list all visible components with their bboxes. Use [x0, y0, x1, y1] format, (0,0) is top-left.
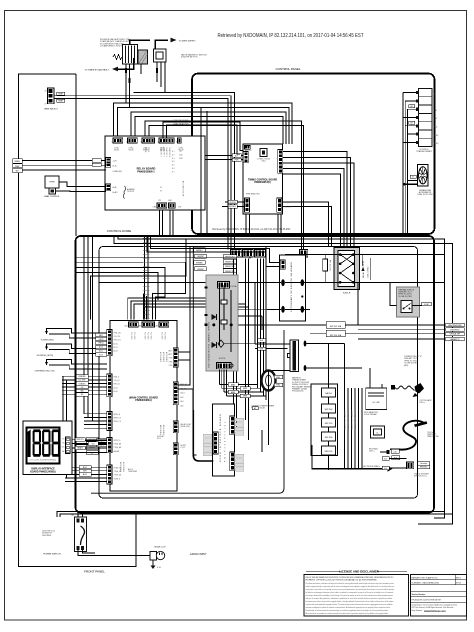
door left tags [203, 434, 212, 456]
wire hv bundle 4 [354, 388, 356, 468]
svg-text:HI AL2: HI AL2 [113, 191, 118, 194]
CN6 wire tag 4 [86, 451, 98, 455]
svg-text:5: 5 [176, 142, 177, 144]
wire tag gray2 [57, 99, 65, 102]
P-row wire tag 2 [223, 260, 237, 264]
svg-text:SPRE_CD: SPRE_CD [114, 418, 122, 420]
svg-text:J3.3: J3.3 [172, 158, 175, 160]
svg-text:HI AL: HI AL [113, 186, 117, 189]
wire transformer pin 2 [405, 100, 416, 102]
feeder wire F2 [76, 262, 185, 319]
wire right margin 2 [358, 328, 445, 330]
hv panel bottom wire d [225, 370, 227, 396]
left wire tag col2 1 [194, 248, 206, 252]
wire transformer pin 6 [407, 133, 415, 135]
svg-text:DISC ±: DISC ± [369, 451, 375, 453]
touch temp cable [399, 421, 425, 450]
wire switch stub left 2 [60, 514, 83, 517]
svg-text:GRN2: GRN2 [243, 388, 247, 390]
door ribbon cable [192, 247, 194, 410]
wire timing br 2 [282, 207, 332, 247]
svg-text:+5B_CD: +5B_CD [114, 380, 121, 382]
hv capacitor C1 [366, 384, 387, 410]
wire long vertical x88 [87, 236, 89, 417]
relay J5 pin labels [113, 186, 118, 194]
svg-text:DUAL FLUX 230V: DUAL FLUX 230V [417, 193, 433, 196]
svg-text:J3.4: J3.4 [172, 161, 175, 163]
relay bottom conn labels [153, 200, 182, 209]
svg-text:WHT/BLK: WHT/BLK [229, 206, 236, 208]
cn9 loop 3 arrowhead [45, 362, 48, 365]
wire hv bundle 2 [347, 388, 349, 468]
wire CN10 pin 3 [62, 383, 107, 385]
cutting arc component [413, 383, 425, 397]
svg-text:2T: 2T [45, 104, 47, 106]
svg-text:CLK: CLK [92, 443, 95, 445]
current transformer CT1 [262, 371, 276, 391]
wire armature drop [140, 64, 142, 74]
ribbon hatch line 2 [147, 236, 149, 320]
wire relay bottom drop 3 [169, 211, 171, 237]
svg-text:1 IS AMPLIFIED 1 W STYLE: 1 IS AMPLIFIED 1 W STYLE [100, 44, 125, 47]
svg-text:SPRE_CD: SPRE_CD [114, 421, 122, 423]
main board right connector CN12 [173, 421, 178, 433]
relay K301 body [334, 248, 360, 290]
hv fanout wire 4 [226, 395, 266, 397]
svg-text:P1.2 GRN: P1.2 GRN [133, 332, 135, 340]
hv bundle rotated labels [344, 410, 358, 430]
wire ovp right b [345, 333, 358, 335]
ribbon bundle v1 [143, 294, 145, 320]
ground symbol [151, 560, 162, 569]
wire display to main 1 [72, 438, 107, 440]
svg-text:SECONDARY INTERLOCK SW BOARD: SECONDARY INTERLOCK SW BOARD [290, 262, 293, 312]
svg-text:SPRE_IO: SPRE_IO [114, 440, 122, 442]
svg-text:12VAC RELAY PWR: 12VAC RELAY PWR [173, 123, 189, 126]
fuse F201 on wire [323, 255, 332, 283]
tco out tag [422, 302, 432, 306]
control transformer label [416, 149, 432, 153]
timing bl tag 2 [228, 205, 237, 209]
svg-text:WHT: WHT [83, 471, 86, 473]
wire timing bl 1 [225, 201, 245, 203]
wire hv diamond right [224, 343, 255, 345]
fuse mark on switch drop [156, 68, 158, 73]
bus wire W112 [131, 112, 286, 144]
svg-text:4 PIN MOLEX: 4 PIN MOLEX [450, 329, 459, 331]
svg-text:TIME_OUT: TIME_OUT [284, 206, 292, 208]
cn9 loop 1 arrowhead [45, 331, 48, 334]
cutting arc pin [391, 385, 395, 390]
power switch note [42, 531, 55, 537]
svg-text:REV. 4: REV. 4 [456, 577, 461, 579]
bus wire W116 [135, 117, 283, 145]
svg-text:VPB_CDL: VPB_CDL [114, 340, 121, 342]
front panel column right edge [75, 74, 77, 236]
wire panel drop 3 [245, 259, 247, 421]
svg-text:Retrieved by NXDOMAIN, IP 82.1: Retrieved by NXDOMAIN, IP 82.132.214.101… [213, 227, 291, 231]
wire CN7 pin 5 [84, 427, 107, 429]
svg-text:DISC ±: DISC ± [420, 402, 426, 404]
svg-text:4.1: 4.1 [412, 176, 414, 178]
svg-text:PWR B: PWR B [147, 147, 149, 152]
rail bottom stub2 [418, 514, 453, 524]
display J2 pin labels [61, 439, 65, 453]
wire transformer pin 3 [407, 108, 415, 110]
wire timing bottom stub 1 [245, 214, 247, 236]
wire display to main 2 [72, 443, 107, 445]
wire relay J4 out 2 [22, 164, 106, 166]
bus wire W103 [114, 103, 293, 144]
track tag right 2 [418, 465, 430, 468]
bus wire W121 [145, 121, 302, 250]
svg-text:BOARD PN#8312480(U): BOARD PN#8312480(U) [30, 470, 56, 473]
hv small comp 2 [221, 320, 227, 324]
main control board outline [110, 321, 177, 492]
valve magnetic switch label [181, 54, 207, 59]
relay J4 wire tag 1 [13, 159, 23, 163]
CN7 pin names [114, 413, 122, 423]
wire relay J4 out 1 [22, 160, 106, 162]
svg-text:AC IN 12VAC 2.5A: AC IN 12VAC 2.5A [182, 180, 185, 196]
svg-text:HLK1: HLK1 [434, 135, 440, 137]
oven cavity box B2 [76, 236, 435, 513]
junction connector P3 [255, 250, 266, 258]
svg-text:POWER (RED): POWER (RED) [41, 339, 54, 341]
wire bottom bus2 [261, 430, 263, 452]
wire long vertical x84 [83, 236, 85, 414]
relay board right pin text col1 [172, 151, 175, 173]
wire timing br 1 [282, 202, 329, 247]
wire switch stub left 1 [57, 512, 78, 518]
door board right connector A [230, 416, 235, 435]
ribbon hatch ticks [143, 238, 150, 318]
wire timing bottom stub 4 [280, 214, 282, 237]
svg-text:GROUNDS: GROUNDS [42, 535, 52, 537]
P-row wire tag 1 [223, 255, 237, 259]
sfr top feed [328, 344, 330, 389]
svg-text:12VAC RELAY PWR: 12VAC RELAY PWR [173, 119, 189, 122]
svg-text:PN#8304380A): PN#8304380A) [135, 399, 152, 402]
wire display to main 4 [72, 452, 107, 454]
node dots top [129, 39, 131, 41]
ribbon bundle v2 [146, 296, 148, 320]
machine compartment box B3 [99, 247, 418, 499]
svg-text:TIME_IN: TIME_IN [284, 202, 291, 204]
wire CN6 pin 3 [72, 447, 107, 449]
svg-text:BLK: BLK [260, 340, 263, 342]
filet arc wire [380, 451, 387, 453]
relay board CN1 pin text [114, 147, 120, 152]
alarms output label [127, 188, 135, 193]
rail HV upper [285, 254, 445, 256]
display digit 8a [33, 430, 41, 457]
door small tag [252, 407, 258, 411]
svg-text:HLK2: HLK2 [434, 143, 440, 145]
svg-text:CL: CL [376, 433, 378, 435]
wire T1 top right [306, 343, 344, 345]
wire T1 bottom right [306, 367, 362, 369]
current transformer label [251, 405, 275, 410]
CN5 wire tag 2 [79, 469, 91, 473]
svg-text:Service Number: Service Number [412, 594, 426, 596]
feeder wire F4 [76, 273, 158, 301]
wire heat control 3 [56, 190, 106, 193]
svg-text:PIN5: PIN5 [169, 365, 173, 367]
hv panel left pin 2 [205, 314, 208, 316]
wire CN5 pin 5 [65, 481, 107, 483]
wire relay1 long [76, 440, 107, 442]
surge resistor SFR4 [322, 432, 336, 441]
hv panel bottom wire c [223, 370, 225, 393]
wire panel-to-board elbow 4 [144, 307, 249, 320]
magnetron transformer T1 [288, 340, 299, 372]
svg-text:MAGNETRON FILAMENT: MAGNETRON FILAMENT [347, 410, 350, 430]
wire tco in [390, 282, 397, 305]
wire long vertical x201 [200, 107, 202, 236]
svg-text:J3.6: J3.6 [172, 168, 175, 170]
svg-text:M05.1: M05.1 [181, 393, 186, 395]
CN12 labels [181, 423, 192, 428]
relay board CN4 pin text [160, 147, 166, 152]
wire tag gray1 [57, 92, 65, 95]
cutting arc label [420, 399, 433, 404]
CN10 wire tag 6 [76, 393, 88, 397]
relay board top connector CN2 [128, 138, 138, 143]
wire hv bundle 5 [358, 388, 360, 468]
wire solenoid top to supply [130, 40, 151, 45]
CN5 wire tag 3 [79, 473, 91, 477]
main board right connector RC0 [173, 348, 178, 367]
wire interlock feed 2 [147, 236, 280, 267]
hv fanout tag 1 [228, 383, 238, 387]
svg-text:MODE (CM): MODE (CM) [181, 426, 191, 428]
svg-text:PWR: PWR [49, 182, 55, 184]
display bezel [26, 428, 59, 464]
wire CN7 pin 3 [84, 420, 107, 422]
wire transformer vert 3 [406, 109, 408, 233]
svg-text:1: 1 [111, 142, 112, 144]
wire select wire 2 [55, 99, 229, 250]
svg-text:4.10: 4.10 [394, 451, 397, 453]
valve magnetic switch S1 [154, 49, 167, 62]
wire panel drop 5 [257, 259, 259, 389]
door right tags B [236, 454, 244, 471]
wire fan feed 2 [405, 183, 418, 185]
wire transformer pin 7 [403, 141, 416, 143]
svg-text:H.V. CAP: H.V. CAP [372, 401, 380, 404]
wire track trigger in 1 [382, 458, 407, 460]
cn9 near tag 6 [96, 353, 107, 357]
main board top connector CN1 [129, 322, 139, 327]
svg-text:CLUTCH: CLUTCH [229, 202, 235, 204]
rail HV lower left [99, 281, 281, 283]
wire right margin 1 [358, 324, 445, 326]
main board left connector CN5 [107, 465, 112, 484]
CN10 pin names [114, 377, 121, 393]
svg-text:(A11): (A11) [404, 364, 409, 367]
wire panel drop 1 [233, 259, 235, 418]
relay board CN2 pin text [129, 147, 135, 152]
relay board bottom connector CN6 [157, 203, 167, 208]
right margin tag 3 [446, 332, 465, 336]
door board left connector [213, 432, 218, 454]
svg-text:P1.2 GRN: P1.2 GRN [164, 332, 166, 340]
svg-text:SWITCH (N.O.): SWITCH (N.O.) [414, 476, 427, 478]
svg-text:(ON/OFF SET PT): (ON/OFF SET PT) [181, 57, 198, 59]
display digit 1 [27, 430, 30, 457]
wire relay top right 2 [167, 125, 241, 154]
CT1 tag 2 [274, 383, 283, 387]
wire T1 bottom left [271, 370, 290, 372]
svg-text:DISPLAY INTERFACE: DISPLAY INTERFACE [31, 467, 55, 470]
hv diode D1 [212, 314, 217, 320]
relay board left connector J5 [106, 184, 111, 191]
CN11 wire labels [181, 383, 187, 408]
svg-text:WHT/BRN: WHT/BRN [196, 263, 203, 265]
wire heat control 2 [51, 194, 53, 196]
svg-text:COMM (US): COMM (US) [113, 171, 123, 173]
control panel box [192, 74, 435, 235]
wire timing bottom stub 3 [277, 214, 279, 237]
wire panel drop 2 [236, 259, 238, 431]
wire vertical x63 [62, 376, 64, 474]
wire transformer pin 1 [403, 92, 416, 94]
wire CN7 pin 4 [84, 424, 107, 426]
svg-text:PIN3: PIN3 [169, 358, 173, 360]
wire ovp left b [310, 333, 326, 335]
svg-text:NEMA 5-15P: NEMA 5-15P [154, 546, 166, 549]
svg-text:SFP 202 10A: SFP 202 10A [330, 325, 342, 328]
main board pin text columns [119, 352, 168, 472]
relay board pin text columns [144, 147, 171, 157]
CN10 wire tag 1 [76, 375, 88, 379]
hv wire v1 [219, 285, 221, 345]
wire CN6 pin 1 [72, 438, 107, 440]
interlock right pin B [301, 306, 305, 313]
solenoid valve note text [100, 38, 131, 47]
relay board inner text bottom [160, 187, 162, 192]
CN6 pin names [114, 440, 122, 453]
CT1 tag 1 [274, 375, 283, 379]
relay J4 pin labels [113, 161, 123, 173]
relay K301 arrow [361, 267, 364, 271]
feeder box corner [91, 239, 186, 320]
wire panel-to-board elbow 3 [134, 304, 246, 320]
filet arc tag [391, 449, 399, 453]
hv panel left pin 1 [205, 286, 208, 288]
wire electrode spar [312, 468, 388, 470]
svg-text:SH 1/1: SH 1/1 [456, 582, 461, 584]
CN5 brace label [128, 468, 138, 473]
CN10 wire tag 5 [76, 389, 88, 393]
svg-text:TIMING CONTROL BOARD: TIMING CONTROL BOARD [248, 179, 277, 182]
fan wire tag [410, 175, 416, 178]
svg-text:CLOSE 45°(TBC): CLOSE 45°(TBC) [398, 296, 413, 298]
hv fanout tag 3 [228, 390, 238, 394]
svg-text:A2.11: A2.11 [87, 363, 90, 367]
main control board label [129, 397, 158, 403]
door ribbon cable 2 [189, 247, 191, 341]
T1 top pin [304, 341, 307, 347]
hv panel bottom connector [217, 363, 232, 369]
svg-text:SA 204: SA 204 [325, 392, 332, 395]
timing bottom-left connector [245, 198, 250, 212]
relay board left connector J4 [106, 158, 111, 168]
bus wire W107 [118, 108, 290, 145]
ac plug P1 [150, 551, 165, 560]
CN6 wire tag 2 [86, 442, 98, 446]
current relay B note [404, 355, 422, 367]
cn9 hairpin loop 2 wire b [49, 350, 107, 354]
junction connector P1 [231, 250, 242, 258]
svg-text:J3.7: J3.7 [172, 171, 175, 173]
front panel left column box [19, 74, 137, 567]
feeder wire F1 [76, 257, 250, 258]
svg-text:4.10: 4.10 [384, 468, 387, 470]
wire touch bottom [390, 448, 399, 450]
relay-timing tag 1 [232, 154, 241, 158]
film capacitor label [364, 411, 379, 416]
svg-text:CN3: CN3 [138, 326, 141, 328]
timing top-left connector [245, 146, 251, 150]
svg-text:4: 4 [157, 142, 158, 144]
display interface label [30, 467, 56, 473]
ribbon hatch line 1 [144, 236, 146, 320]
wire timing right 5 [283, 174, 341, 247]
wire select wire 1 [55, 96, 232, 250]
wire panel-to-board elbow 2 [131, 301, 237, 320]
svg-text:BRN/WHT: BRN/WHT [197, 269, 204, 271]
T1 tag 2 [258, 347, 266, 351]
alarms bracket [123, 186, 126, 199]
right margin tag 2 [446, 328, 465, 332]
RC0 pin labels [168, 351, 172, 367]
left wire tag col2 3 [194, 261, 206, 265]
svg-text:HIGH VOLTAGE SECTION - WARNING: HIGH VOLTAGE SECTION - WARNING - SERVICE [208, 321, 211, 368]
svg-text:4.7T 1=4.6T 28.4M BTM MFGA-2: 4.7T 1=4.6T 28.4M BTM MFGA-2 [29, 459, 56, 462]
svg-text:PR.2: PR.2 [157, 438, 161, 440]
svg-text:GRN3: GRN3 [243, 396, 247, 398]
main board left connector CN10 [107, 374, 112, 397]
svg-text:WARRANTY INFO FLAME STYLE: WARRANTY INFO FLAME STYLE [412, 576, 439, 579]
grease fan motor M1 [418, 165, 429, 187]
hv fanout wire 3 [224, 391, 263, 393]
hv wire right lower [238, 315, 262, 317]
svg-text:N.O. WHT: N.O. WHT [79, 380, 86, 382]
power loop wire L1 [78, 236, 445, 517]
surge resistor SFR2 [322, 404, 336, 413]
svg-text:K3: K3 [160, 190, 162, 192]
wire display to main 3 [72, 447, 107, 449]
license and disclaimer heading [306, 570, 407, 574]
sfr bottom out [328, 455, 330, 470]
relay board CN5 pin text [179, 147, 185, 152]
wire transformer pin 5 [405, 125, 416, 127]
wire CN10 pin 2 [62, 379, 107, 381]
T1 bottom pin [304, 365, 307, 371]
timing crystal label [257, 158, 271, 163]
cn9 near tag 1 [96, 333, 107, 337]
hv wire v2 [223, 285, 225, 330]
wire right margin 3 [358, 333, 445, 335]
hv fanout tag 2 [240, 387, 250, 391]
CN10 wire tag 4 [76, 385, 88, 389]
wire CN5 pin 2 [65, 470, 107, 472]
T1 tag 1 [258, 339, 266, 343]
svg-text:HEAT CONTROL: HEAT CONTROL [44, 195, 60, 198]
timing board label [248, 179, 277, 185]
